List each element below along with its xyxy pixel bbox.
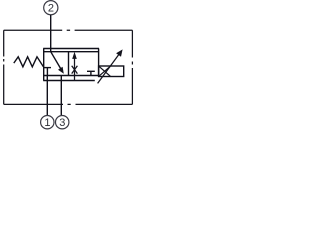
port line 1 xyxy=(46,76,48,116)
closed path X (right position) xyxy=(72,66,78,74)
wire port 2 to valve xyxy=(50,15,52,52)
valve body left edge xyxy=(43,49,45,81)
svg-text:1: 1 xyxy=(44,117,50,129)
valve body right edge xyxy=(98,49,100,77)
blocked port T (right position) xyxy=(87,71,95,75)
envelope boundary left edge (dash-dot) xyxy=(3,30,5,104)
envelope boundary right edge (dash-dot) xyxy=(131,30,133,104)
proportional rail bottom xyxy=(43,80,95,82)
spring box X xyxy=(99,66,111,76)
adjustable spring box xyxy=(99,66,124,77)
spring (left side) xyxy=(14,57,44,67)
port line 3 xyxy=(60,76,62,116)
background xyxy=(0,0,138,131)
proportional rail top xyxy=(43,48,99,50)
envelope boundary bottom edge (dash-dot) xyxy=(4,103,133,105)
port circle 2 xyxy=(44,1,58,15)
relief flow arrow (right position) xyxy=(72,52,77,81)
envelope boundary top edge (dash-dot) xyxy=(4,29,133,31)
svg-text:2: 2 xyxy=(48,3,54,15)
port circle 1 xyxy=(41,116,54,130)
valve body bottom edge xyxy=(43,75,98,77)
port circle 3 xyxy=(56,116,69,130)
blocked port T (left position) xyxy=(44,68,51,76)
adjustment arrow xyxy=(98,49,123,83)
svg-text:3: 3 xyxy=(59,117,65,129)
valve body top edge xyxy=(43,51,98,53)
valve position divider xyxy=(68,52,70,76)
flow arrow left position (2 to 3) xyxy=(51,52,64,74)
